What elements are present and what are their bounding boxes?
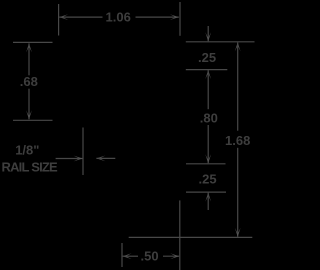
dimension 1.68 upper shaft [237, 42, 239, 130]
edge line H6 right bottom step [186, 191, 226, 193]
dimension .80 bottom arrow [205, 154, 211, 163]
dimension .68 lower shaft [28, 89, 30, 120]
svg-text:1.68: 1.68 [225, 133, 250, 148]
dimension .25 top outside shaft [207, 26, 209, 41]
svg-text:RAIL SIZE: RAIL SIZE [2, 159, 59, 174]
dimension 1.06 left shaft [59, 16, 102, 18]
extension line V1 left end of 1.06 [58, 4, 60, 36]
opposing leader shaft [96, 157, 115, 159]
dimension .80 upper shaft [207, 70, 209, 109]
edge line H4 right upper step [186, 69, 228, 71]
leader arrow pointing right at rail slot [74, 156, 83, 162]
svg-text:.50: .50 [141, 249, 159, 264]
leader shaft to rail slot left [56, 158, 83, 160]
dimension .25 bottom outside arrow [205, 193, 211, 202]
rail slot edge line V3 [82, 128, 84, 176]
svg-text:.80: .80 [200, 110, 218, 125]
svg-text:.25: .25 [199, 172, 217, 187]
dimension .80 top arrow [205, 70, 211, 79]
edge line H7 bottom [129, 236, 253, 238]
extension line V2 right end of 1.06 [179, 2, 181, 36]
dimension .50 right arrow [170, 253, 179, 259]
opposing leader arrow pointing left at rail slot [96, 156, 105, 162]
svg-text:.68: .68 [20, 74, 38, 89]
dimension .50 left shaft [123, 255, 138, 257]
dimension .68 upper shaft [28, 43, 30, 75]
edge line H5 right lower step [186, 163, 226, 165]
extension line V5 right end of .50 [179, 200, 181, 270]
dimension 1.68 top arrow [235, 42, 241, 51]
dimension 1.06 right shaft [136, 16, 179, 18]
dimension 1.68 lower shaft [237, 148, 239, 237]
dimension .68 top arrow [26, 43, 32, 52]
dimension .80 lower shaft [207, 125, 209, 163]
dimension 1.06 left arrow [59, 14, 68, 20]
dimension 1.06 right arrow [170, 14, 179, 20]
dimension 1.68 bottom arrow [235, 228, 241, 237]
svg-text:1.06: 1.06 [106, 10, 131, 25]
edge line H1 top of left profile [13, 41, 53, 43]
dimension .25 top outside arrow [205, 32, 211, 41]
dimension .50 left arrow [123, 253, 132, 259]
edge line H2 bottom of left profile [13, 119, 53, 121]
svg-text:.25: .25 [198, 50, 216, 65]
dimension .25 bottom outside shaft [207, 193, 209, 210]
dimension .50 right shaft [163, 255, 179, 257]
svg-text:1/8": 1/8" [15, 142, 39, 157]
edge line H3 top right [186, 41, 255, 43]
dimension .68 bottom arrow [26, 110, 32, 119]
extension line V4 left end of .50 [121, 243, 123, 267]
